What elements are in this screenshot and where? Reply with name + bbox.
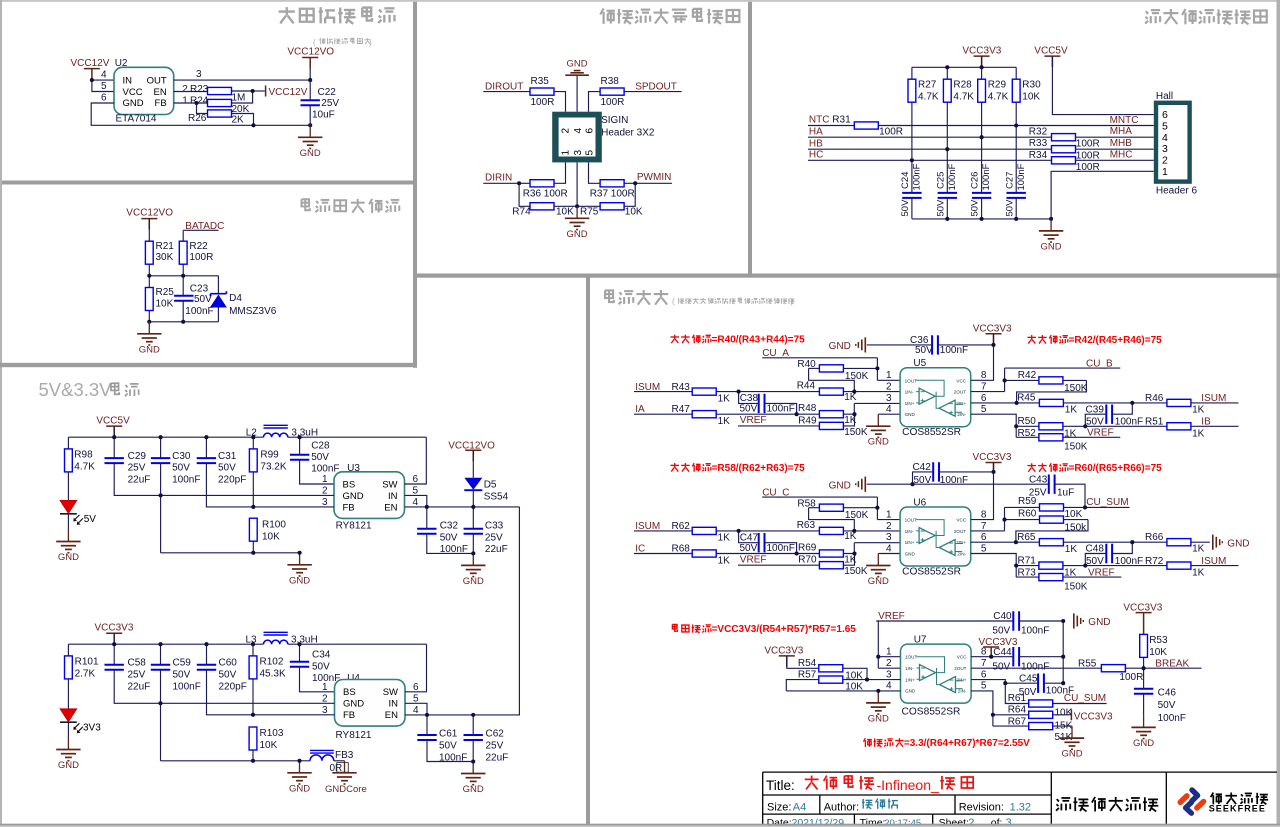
svg-text:IN: IN xyxy=(123,75,133,86)
svg-text:50V: 50V xyxy=(1004,199,1015,217)
resistor R42 xyxy=(1005,370,1088,403)
svg-text:VCC5V: VCC5V xyxy=(96,416,130,427)
wire VCC12V to U2 pins 4,5 xyxy=(92,80,114,92)
wire C38 links xyxy=(739,392,797,415)
svg-text:150K: 150K xyxy=(844,427,868,438)
U3 pin numbers xyxy=(322,474,419,508)
svg-text:2OUT: 2OUT xyxy=(954,390,966,395)
svg-text:D5: D5 xyxy=(484,479,497,490)
U5 part number xyxy=(902,427,961,438)
svg-text:R64: R64 xyxy=(1008,705,1027,716)
svg-text:1: 1 xyxy=(886,510,892,521)
svg-text:R74: R74 xyxy=(512,206,531,217)
wire gnd node to R75 xyxy=(577,205,600,207)
wire R22 to node xyxy=(182,264,184,276)
capacitor C58 xyxy=(105,658,151,693)
resistor R54 xyxy=(787,656,867,682)
svg-text:IN: IN xyxy=(388,491,398,502)
svg-text:4: 4 xyxy=(1162,132,1168,144)
svg-text:VCC3V3: VCC3V3 xyxy=(973,323,1012,334)
ground GNDCore xyxy=(332,761,356,784)
zener diode D4 MMSZ3V6 xyxy=(210,276,277,322)
wire R26 right to ground rail xyxy=(232,114,254,126)
svg-text:R33: R33 xyxy=(1029,138,1048,149)
svg-text:1K: 1K xyxy=(1192,404,1205,415)
svg-text:C61: C61 xyxy=(439,729,458,740)
svg-text:C24: C24 xyxy=(900,172,911,189)
resistor R63 xyxy=(797,520,857,542)
wire C30 bottom column xyxy=(160,463,162,553)
svg-text:45.3K: 45.3K xyxy=(260,669,286,680)
svg-text:C32: C32 xyxy=(440,521,459,532)
svg-text:GND: GND xyxy=(289,575,310,586)
page bottom border overlay xyxy=(0,824,1280,827)
U6 part number xyxy=(902,567,961,578)
svg-text:GND: GND xyxy=(343,491,364,502)
svg-text:4.7K: 4.7K xyxy=(953,91,974,102)
ground GND (C22) xyxy=(298,125,322,159)
wire C23 leads xyxy=(182,276,184,322)
wire R53 to BREAK xyxy=(1143,657,1145,668)
svg-text:220pF: 220pF xyxy=(219,681,247,692)
section title 过压保护电路 xyxy=(279,7,395,24)
power VCC3V3 (U5) xyxy=(973,323,1012,344)
resistor R23 xyxy=(190,84,245,103)
U2 pin numbers xyxy=(101,69,202,107)
wire C32 leads xyxy=(427,507,474,554)
svg-text:1: 1 xyxy=(322,682,328,693)
resistor R101 xyxy=(65,656,99,680)
svg-text:VCC12VO: VCC12VO xyxy=(287,47,334,58)
svg-text:): ) xyxy=(369,38,372,47)
wire pin3 link xyxy=(854,403,900,414)
net label CU_A xyxy=(762,348,877,359)
svg-text:C62: C62 xyxy=(486,729,505,740)
svg-text:C27: C27 xyxy=(1004,172,1015,189)
svg-text:4: 4 xyxy=(886,681,892,692)
net label BATADC xyxy=(183,221,224,232)
svg-text:R47: R47 xyxy=(672,404,691,415)
wire pullup top rail xyxy=(912,56,1016,79)
junction U7 left junctions xyxy=(865,655,880,693)
resistor R40 xyxy=(797,359,877,391)
svg-text:1.32: 1.32 xyxy=(1010,801,1031,813)
svg-text:C30: C30 xyxy=(172,451,191,462)
wire U2 EN to R23 xyxy=(174,91,208,93)
wire U4 EN rail xyxy=(405,714,473,716)
wire pin3 link xyxy=(854,543,900,554)
svg-text:R49: R49 xyxy=(798,415,817,426)
logo text 逐飞科技 SEEKFREE xyxy=(1209,793,1268,814)
svg-text:R45: R45 xyxy=(1017,393,1036,404)
svg-text:30K: 30K xyxy=(156,252,174,263)
wire pin6 row xyxy=(971,402,1239,404)
power VCC12VO (monitor) xyxy=(126,208,173,230)
svg-text:50V: 50V xyxy=(992,626,1010,637)
wire R75 to PWMIN xyxy=(624,183,635,206)
svg-text:50V: 50V xyxy=(992,661,1010,672)
IC U3 pin names xyxy=(343,479,398,513)
capacitor C46 xyxy=(1134,688,1186,724)
svg-text:50V: 50V xyxy=(740,543,758,554)
svg-text:BREAK: BREAK xyxy=(1155,658,1189,669)
svg-text:6: 6 xyxy=(101,93,107,104)
svg-text:10K: 10K xyxy=(625,206,643,217)
svg-text:C22: C22 xyxy=(318,87,337,98)
wire VCC12VO to R21 xyxy=(148,219,150,242)
svg-text:VREF: VREF xyxy=(1087,428,1114,439)
svg-text:50V: 50V xyxy=(439,741,457,752)
net label HC xyxy=(808,149,1051,160)
svg-text:50V: 50V xyxy=(1158,700,1176,711)
svg-text:4.7K: 4.7K xyxy=(988,91,1009,102)
svg-text:RY8121: RY8121 xyxy=(336,521,372,532)
IC U2 body xyxy=(114,67,174,114)
svg-text:8: 8 xyxy=(981,647,987,658)
wire C62 leads xyxy=(472,715,474,762)
svg-text:8: 8 xyxy=(981,510,987,521)
svg-text:R27: R27 xyxy=(918,79,937,90)
capacitor C39 xyxy=(1086,404,1144,427)
svg-text:FB3: FB3 xyxy=(335,750,354,761)
svg-text:220pF: 220pF xyxy=(218,475,246,486)
resistor R60 xyxy=(1005,508,1089,542)
svg-text:R29: R29 xyxy=(988,79,1007,90)
ground GND (R66) xyxy=(1213,535,1250,550)
svg-text:HB: HB xyxy=(809,138,823,149)
resistor R67 xyxy=(993,716,1073,743)
svg-text:PWMIN: PWMIN xyxy=(637,172,671,183)
wire R50 row xyxy=(1016,425,1238,427)
svg-text:50V: 50V xyxy=(173,669,191,680)
svg-text:3V3: 3V3 xyxy=(83,722,101,733)
wire vcc/gnd vertical xyxy=(1062,621,1064,683)
net label DIROUT xyxy=(483,82,530,93)
wire U3 SW to L2 rail xyxy=(405,437,427,484)
svg-text:1K: 1K xyxy=(718,393,731,404)
net label IC xyxy=(635,544,645,555)
capacitor C44 xyxy=(992,647,1049,672)
svg-text:MNTC: MNTC xyxy=(1110,115,1139,126)
capacitor C43 xyxy=(1029,474,1074,498)
ground GND (3V3 reg) xyxy=(287,761,311,795)
wire pin4 to gnd xyxy=(878,413,900,415)
svg-text:100R: 100R xyxy=(1119,672,1143,683)
svg-text:IA: IA xyxy=(635,404,645,415)
svg-text:5: 5 xyxy=(981,404,987,415)
net label MHA xyxy=(1110,126,1133,137)
svg-text:R26: R26 xyxy=(188,113,207,124)
ground GND (5V reg) xyxy=(287,553,311,587)
wire C33 leads xyxy=(472,507,474,554)
wire C42 branch xyxy=(913,472,994,484)
IC U4 pin names xyxy=(343,687,398,721)
svg-text:5: 5 xyxy=(981,681,987,692)
wire C22 leads xyxy=(309,80,311,125)
svg-text:SW: SW xyxy=(382,479,397,490)
wire R74 to gnd node xyxy=(554,205,577,207)
capacitor C48 xyxy=(1086,544,1144,567)
wire DIRIN to R74 xyxy=(519,183,530,206)
junction U6 B-side junctions xyxy=(910,470,1134,568)
resistor R27 xyxy=(908,79,939,102)
wire R102 to FB node xyxy=(252,679,254,715)
resistor R103 xyxy=(249,727,284,751)
svg-text:1OUT: 1OUT xyxy=(905,378,917,383)
svg-text:SEEKFREE: SEEKFREE xyxy=(1209,803,1266,813)
title block frame xyxy=(763,772,1277,824)
svg-text:25V: 25V xyxy=(128,463,146,474)
ground GND (CU_A amp) xyxy=(866,414,890,448)
svg-text:R36 100R: R36 100R xyxy=(523,189,568,200)
capacitor C40 xyxy=(992,611,1049,636)
svg-text:FB: FB xyxy=(155,98,167,109)
svg-text:R55: R55 xyxy=(1078,658,1097,669)
capacitor C38 xyxy=(740,393,795,414)
junction U5 B-side junctions xyxy=(991,343,1134,429)
svg-text:100nF: 100nF xyxy=(173,681,201,692)
net label VREF (U6 B side) xyxy=(1088,567,1115,578)
svg-text:R75: R75 xyxy=(580,206,599,217)
wire C61 leads xyxy=(427,715,473,762)
resistor R33 xyxy=(1029,138,1100,161)
designator U5 xyxy=(913,358,926,369)
svg-text:1M: 1M xyxy=(232,92,246,103)
power VCC3V3 (U7 pin8) xyxy=(979,637,1018,657)
svg-text:R61: R61 xyxy=(1008,693,1027,704)
svg-text:6: 6 xyxy=(981,532,987,543)
logo mark xyxy=(1180,790,1203,813)
net label HA xyxy=(808,127,1051,138)
ground GND (U7) xyxy=(866,691,890,725)
svg-text:Hall: Hall xyxy=(1156,91,1173,102)
power VCC12VO (output) xyxy=(287,47,334,69)
net label DIRIN xyxy=(483,172,519,183)
svg-text:4: 4 xyxy=(573,128,584,134)
resistor R45 xyxy=(1017,393,1077,416)
wire C60 bottom jog xyxy=(207,670,254,715)
svg-text:R31: R31 xyxy=(832,115,851,126)
wire U4 SW to L3 rail xyxy=(405,644,427,692)
svg-text:22uF: 22uF xyxy=(486,753,509,764)
section title 5V&3.3V电源 xyxy=(39,379,139,400)
capacitor C47 xyxy=(740,533,795,554)
resistor R53 xyxy=(1140,634,1168,658)
svg-text:1: 1 xyxy=(182,96,188,107)
wire ISUM row to pin2 xyxy=(634,530,900,532)
net label HB xyxy=(808,138,1051,149)
IC U2 pin names xyxy=(123,75,167,109)
size row xyxy=(767,799,1031,814)
svg-text:50V: 50V xyxy=(440,533,458,544)
wire R36 to header pin1 xyxy=(554,162,566,183)
wire C39 links xyxy=(1085,403,1132,426)
svg-text:VCC3V3: VCC3V3 xyxy=(973,452,1012,463)
svg-text:=VCC3V3/(R54+R57)*R57=1.65: =VCC3V3/(R54+R57)*R57=1.65 xyxy=(712,624,857,635)
svg-text:Title:: Title: xyxy=(766,778,795,793)
resistor R59 xyxy=(1005,496,1086,520)
svg-text:=3.3/(R64+R67)*R67=2.55V: =3.3/(R64+R67)*R67=2.55V xyxy=(904,738,1030,749)
red formula 放大倍数=R58/(R62+R63)=75 xyxy=(670,463,805,474)
svg-text:4.7K: 4.7K xyxy=(74,462,95,473)
svg-text:1: 1 xyxy=(1162,166,1168,178)
wire C58 bottom jog xyxy=(114,670,160,704)
svg-text:2: 2 xyxy=(886,658,892,669)
svg-text:R54: R54 xyxy=(798,658,817,669)
LED 5V indicator xyxy=(60,500,96,525)
wire U4 FB row xyxy=(253,714,335,716)
power VCC5V (rail) xyxy=(96,416,130,438)
net label CU_B xyxy=(1005,358,1121,369)
svg-text:1K: 1K xyxy=(718,533,731,544)
wire U4 IN to EN rail xyxy=(405,703,427,715)
svg-text:100nF: 100nF xyxy=(940,475,968,486)
svg-text:C25: C25 xyxy=(935,172,946,189)
svg-text:GNDCore: GNDCore xyxy=(325,784,367,795)
svg-text:C43: C43 xyxy=(1029,474,1048,485)
ground GND (signal) xyxy=(565,206,589,240)
wire U3 EN rail (12V in) xyxy=(405,506,520,508)
svg-text:ISUM: ISUM xyxy=(1201,556,1226,567)
resistor R99 xyxy=(249,449,286,473)
resistor R65 xyxy=(1017,532,1077,555)
junction 3V3 section junctions xyxy=(112,642,475,763)
capacitor C22 xyxy=(301,87,340,121)
red formula 比较基准=3.3/(R64+R67)*R67=2.55V xyxy=(863,738,1030,749)
svg-text:EN: EN xyxy=(385,710,398,721)
wire CU_C to pin1 xyxy=(877,497,900,519)
svg-text:C60: C60 xyxy=(219,658,238,669)
svg-text:100nF: 100nF xyxy=(1016,163,1027,190)
wire C40 to gnd xyxy=(1019,620,1063,622)
svg-text:R42: R42 xyxy=(1018,370,1037,381)
svg-text:100R: 100R xyxy=(531,97,555,108)
svg-text:Author:: Author: xyxy=(824,801,859,813)
wire U2 OUT to VCC12VO node xyxy=(174,69,310,81)
svg-text:150K: 150K xyxy=(844,566,868,577)
svg-text:3.3uH: 3.3uH xyxy=(291,427,318,438)
svg-text:1: 1 xyxy=(561,150,572,156)
junction CU_A side junctions xyxy=(737,366,880,416)
resistor R22 xyxy=(179,241,213,264)
resistor R32 xyxy=(1029,127,1100,150)
svg-text:R65: R65 xyxy=(1017,532,1036,543)
power VCC12V (U2 input) xyxy=(71,58,110,79)
svg-text:R68: R68 xyxy=(672,544,691,555)
svg-text:50V: 50V xyxy=(194,294,212,305)
resistor R55 xyxy=(1078,658,1143,682)
svg-text:5: 5 xyxy=(585,150,596,156)
svg-text:C46: C46 xyxy=(1158,688,1177,699)
wire ISUM row to pin2 xyxy=(634,391,900,393)
wire 3.3V output rail xyxy=(68,633,426,665)
svg-text:100nF: 100nF xyxy=(912,163,923,190)
svg-text:GND: GND xyxy=(905,552,916,557)
svg-text:R51: R51 xyxy=(1145,417,1164,428)
wire IC row xyxy=(634,553,855,555)
svg-text:6: 6 xyxy=(1162,109,1168,121)
ground GND (top, flipped) xyxy=(565,59,589,112)
svg-text:1IN+: 1IN+ xyxy=(905,540,915,545)
svg-text:100R: 100R xyxy=(1076,139,1100,150)
svg-text:=R42/(R45+R46)=75: =R42/(R45+R46)=75 xyxy=(1069,335,1163,346)
svg-text:3: 3 xyxy=(1162,143,1168,155)
svg-text:7: 7 xyxy=(981,382,987,393)
svg-text:1K: 1K xyxy=(1065,544,1078,555)
red formula 放大倍数=R60/(R65+R66)=75 xyxy=(1027,463,1162,474)
net label ISUM (right) xyxy=(1201,393,1226,404)
svg-text:2IN-: 2IN- xyxy=(957,412,966,417)
svg-text:2.7K: 2.7K xyxy=(75,669,96,680)
net label IB xyxy=(1201,417,1211,428)
U6 pin numbers xyxy=(886,510,987,555)
svg-text:VREF: VREF xyxy=(740,415,767,426)
svg-text:3: 3 xyxy=(886,393,892,404)
resistor R58 xyxy=(797,499,877,531)
wire pin5 to divider xyxy=(971,691,993,726)
svg-text:100nF: 100nF xyxy=(981,163,992,190)
svg-text:100nF: 100nF xyxy=(1158,713,1186,724)
net label ISUM xyxy=(635,521,660,532)
resistor R46 xyxy=(1145,393,1205,415)
svg-text:R66: R66 xyxy=(1145,532,1164,543)
capacitor C60 xyxy=(197,658,247,693)
power VCC12VO (buck input) xyxy=(448,441,495,462)
wire header pin3 to gnd node xyxy=(576,162,578,206)
net label CU_SUM xyxy=(1085,497,1130,508)
svg-text:SS54: SS54 xyxy=(484,492,509,503)
junction panel1 junctions xyxy=(90,78,312,127)
svg-text:1: 1 xyxy=(322,474,328,485)
svg-text:VCC3V3: VCC3V3 xyxy=(1123,602,1162,613)
svg-text:R102: R102 xyxy=(260,657,284,668)
svg-text:50V: 50V xyxy=(312,661,330,672)
resistor R38 xyxy=(600,76,624,108)
red formula 放大倍数=R42/(R45+R46)=75 xyxy=(1027,335,1162,346)
svg-text:R37 100R: R37 100R xyxy=(590,189,635,200)
U4 pin numbers xyxy=(322,682,419,716)
svg-text:2OUT: 2OUT xyxy=(954,529,966,534)
wire C45 row xyxy=(1005,682,1063,684)
svg-text:Size:: Size: xyxy=(767,801,791,813)
IC U4 body xyxy=(335,680,406,727)
wire R71 row xyxy=(1016,565,1238,567)
op-amp U7 body xyxy=(901,644,972,703)
svg-text:150K: 150K xyxy=(845,510,869,521)
svg-text:VREF: VREF xyxy=(1088,567,1115,578)
svg-text:22uF: 22uF xyxy=(485,544,508,555)
svg-text:R25: R25 xyxy=(156,287,175,298)
svg-text:R70: R70 xyxy=(798,555,817,566)
svg-text:C58: C58 xyxy=(128,658,147,669)
resistor R29 xyxy=(978,79,1009,102)
svg-text:R62: R62 xyxy=(672,521,691,532)
svg-text:R30: R30 xyxy=(1022,79,1041,90)
svg-text:NTC: NTC xyxy=(809,115,830,126)
svg-text:R67: R67 xyxy=(1008,716,1027,727)
wire R99 to FB node xyxy=(252,472,254,507)
resistor R73 xyxy=(1016,566,1121,593)
svg-text:100nF: 100nF xyxy=(767,543,795,554)
wire C44 row xyxy=(991,656,1063,658)
svg-text:2: 2 xyxy=(886,382,892,393)
power VCC3V3 (R64) xyxy=(1071,709,1113,722)
ground GND (divider) xyxy=(137,322,161,356)
label GNDCore xyxy=(325,784,367,795)
resistor R75 xyxy=(580,203,643,218)
LED 3V3 indicator xyxy=(60,709,101,734)
section subtitle xyxy=(672,297,795,306)
